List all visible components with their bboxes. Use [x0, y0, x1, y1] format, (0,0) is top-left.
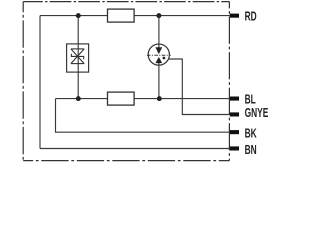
node junction top-left	[76, 13, 81, 18]
arrester electrode arrow down	[155, 47, 162, 54]
wire: arrester branch	[158, 16, 160, 99]
terminal mark BL	[230, 97, 239, 101]
suppressor diode box	[67, 44, 89, 72]
enclosure dash-dot border right	[228, 2, 230, 161]
node junction top-right	[156, 13, 161, 18]
arrester gas dot	[163, 57, 166, 60]
terminal mark RD	[230, 14, 239, 18]
terminal mark BK	[230, 130, 239, 134]
terminal mark GNYE	[230, 112, 239, 116]
wire: BL rail	[56, 98, 231, 100]
node junction bottom-right	[157, 96, 162, 101]
suppressor diode bottom bar	[71, 63, 84, 65]
wire: top rail to RD	[40, 15, 230, 17]
terminal mark BN	[230, 146, 239, 150]
wire: suppressor branch	[77, 16, 79, 99]
svg-text:GNYE: GNYE	[245, 106, 269, 120]
suppressor diode diagonal 2	[71, 49, 84, 64]
svg-text:BL: BL	[245, 93, 257, 107]
wire: BK branch	[56, 99, 231, 133]
wire: bottom rail to BN	[40, 148, 230, 150]
arrester centre dash-dot line	[147, 54, 171, 56]
resistor R1	[108, 9, 135, 22]
arrester electrode arrow up	[155, 57, 162, 63]
enclosure dash-dot border bottom	[23, 160, 229, 162]
wire: left rail	[39, 16, 41, 149]
enclosure dash-dot border top	[23, 1, 229, 3]
wire: GNYE branch	[169, 59, 230, 115]
svg-text:BN: BN	[245, 143, 257, 157]
svg-text:BK: BK	[245, 127, 257, 141]
suppressor diode top bar	[71, 48, 84, 50]
resistor R2	[108, 92, 135, 105]
suppressor diode diagonal 1	[71, 49, 84, 64]
node junction bottom-left	[76, 96, 81, 101]
suppressor zener bar	[71, 54, 83, 60]
svg-text:RD: RD	[245, 10, 257, 24]
enclosure dash-dot border left	[22, 2, 24, 161]
surge arrester circle	[148, 44, 169, 65]
